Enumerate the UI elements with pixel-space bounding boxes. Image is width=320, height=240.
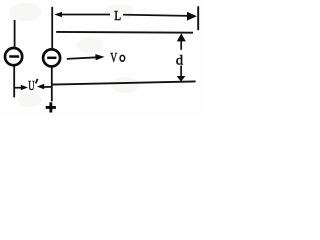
dimension U right shaft	[44, 86, 52, 88]
wire below source E1	[13, 66, 15, 98]
wire from top boundary down to source E2	[51, 7, 53, 50]
dimension U right-pointing arrowhead	[21, 85, 28, 90]
minus sign of E2	[47, 57, 56, 60]
top plate	[56, 31, 193, 34]
paper background	[0, 0, 205, 117]
svg-text:L: L	[114, 8, 121, 23]
bottom plate	[52, 81, 196, 84]
svg-text:d: d	[176, 53, 183, 68]
dimension L left arrowhead	[54, 12, 62, 18]
source E1 (circle with minus terminal)	[5, 48, 22, 65]
right boundary tick for L dimension	[197, 6, 199, 30]
dimension L right arrowhead	[187, 12, 197, 21]
velocity arrowhead	[95, 54, 104, 60]
svg-text:V: V	[110, 51, 117, 66]
dimension d lower arrowhead	[177, 76, 186, 82]
velocity arrow shaft	[67, 57, 97, 59]
source E2 (circle with minus terminal)	[43, 49, 60, 66]
svg-text:U: U	[28, 78, 34, 93]
plus polarity mark	[46, 102, 56, 112]
dimension line L: left segment	[58, 14, 110, 16]
dimension d upper shaft	[180, 41, 182, 50]
wire below source E2	[51, 67, 53, 102]
minus sign of E1	[9, 55, 19, 58]
dimension d upper arrowhead	[177, 33, 186, 41]
dimension d lower shaft	[180, 66, 182, 78]
wire from top to source E1	[14, 20, 16, 48]
dimension U left shaft	[14, 87, 22, 89]
dimension U left-pointing arrowhead	[37, 84, 44, 89]
dimension line L: right segment	[123, 15, 189, 16]
